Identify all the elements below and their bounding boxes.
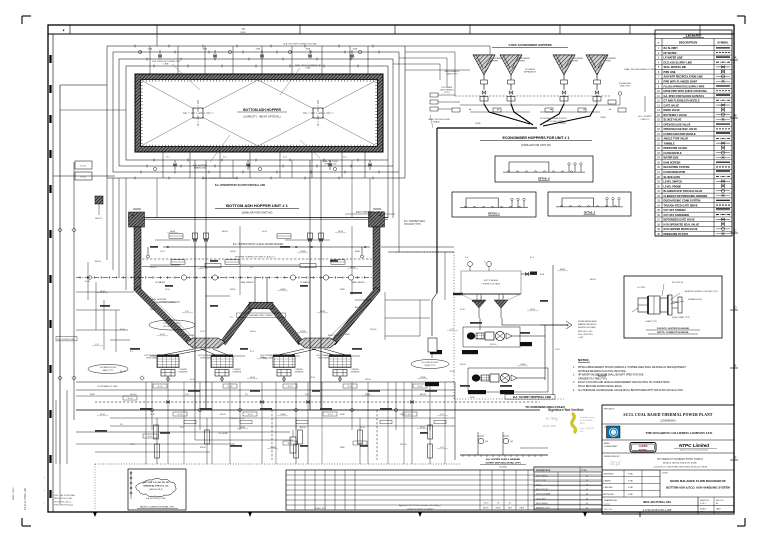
svg-text:THIMBLE: THIMBLE (664, 142, 675, 145)
svg-text:BOTTOM ASH HOPPER: BOTTOM ASH HOPPER (243, 108, 281, 112)
svg-text:NTPC SITE: NTPC SITE (536, 480, 547, 482)
svg-text:BAHP (TYP): BAHP (TYP) (103, 369, 114, 372)
svg-text:DISTRIBUTION: DISTRIBUTION (536, 470, 551, 472)
left side risers (53, 85, 195, 464)
coupling detail box (624, 276, 722, 338)
svg-text:(SEE NOTE-2): (SEE NOTE-2) (149, 489, 163, 491)
svg-text:50 A: 50 A (540, 273, 545, 276)
bottom left reference text (44, 477, 75, 507)
svg-text:SL-90: SL-90 (288, 386, 293, 388)
svg-text:SL-90: SL-90 (262, 231, 267, 233)
svg-text:OVERFLOW TANK: OVERFLOW TANK (482, 283, 501, 286)
svg-text:DECANTING SYSTEM: DECANTING SYSTEM (664, 166, 690, 169)
svg-text:DETAIL-1: DETAIL-1 (488, 212, 500, 216)
svg-text:B.A. TROUGH OVERFLOW: B.A. TROUGH OVERFLOW (152, 60, 180, 63)
svg-text:CONSULTANT:: CONSULTANT: (604, 445, 618, 448)
svg-text:THE SINGARENI COLLIERIES COMPA: THE SINGARENI COLLIERIES COMPANY LTD. (646, 431, 713, 435)
svg-text:OPEN DELUGE NOZ. VALVE: OPEN DELUGE NOZ. VALVE (664, 128, 698, 131)
svg-text:SL-90: SL-90 (360, 427, 365, 429)
svg-text:FL-3: FL-3 (305, 394, 309, 396)
svg-text:(U#1&2): (U#1&2) (499, 467, 507, 469)
svg-text:O.F. SUMP: O.F. SUMP (218, 433, 229, 435)
svg-text:BA-101: BA-101 (120, 370, 126, 373)
svg-text:(BOTH FOR U#1&2): (BOTH FOR U#1&2) (163, 326, 181, 328)
svg-text:BA-101: BA-101 (95, 260, 101, 263)
svg-text:SL-90: SL-90 (418, 386, 423, 388)
sump details (195, 410, 380, 453)
svg-text:DN-100: DN-100 (490, 344, 496, 346)
svg-text:BOTTOM ASH HOPPER UNIT # 1: BOTTOM ASH HOPPER UNIT # 1 (226, 203, 289, 208)
detail box 2 (548, 192, 631, 216)
svg-text:Development Consultants Privat: Development Consultants Private Limited (658, 458, 704, 461)
svg-text:Signature Not Verified: Signature Not Verified (548, 408, 583, 412)
svg-text:FL-3: FL-3 (305, 267, 309, 269)
svg-text:SUPPLIER DRAWING IN ACTUAL PRA: SUPPLIER DRAWING IN ACTUAL PRACTICE. (578, 370, 627, 373)
svg-text:DATE: DATE (520, 507, 526, 510)
svg-text:▲: ▲ (609, 108, 611, 111)
svg-text:WATER BOX: WATER BOX (664, 157, 679, 160)
svg-text:CHKD: CHKD (495, 508, 501, 510)
svg-text:BHEL/: BHEL/ (604, 443, 610, 445)
svg-text:PIPE LINE: PIPE LINE (664, 71, 676, 74)
svg-text:B.A. INTERMITTENT SLURRY DISPO: B.A. INTERMITTENT SLURRY DISPOSAL LINE (215, 184, 266, 187)
svg-text:150NB: 150NB (600, 117, 606, 119)
svg-text:ECO ASH SLURRY LINE: ECO ASH SLURRY LINE (664, 61, 693, 64)
svg-text:L-002: L-002 (578, 337, 584, 339)
svg-text:TD: TD (241, 28, 244, 31)
svg-text:SL-90: SL-90 (328, 414, 333, 416)
svg-text:NTPC NO:: NTPC NO: (604, 509, 613, 511)
svg-text:B.A. HOPPER SPRAY & SEAL WATER: B.A. HOPPER SPRAY & SEAL WATER HEADER (233, 243, 284, 246)
svg-text:HOPPER: HOPPER (603, 61, 612, 63)
svg-text:LP WATER LINE: LP WATER LINE (664, 57, 683, 60)
svg-text:HYDRO EJECTOR NOZZLE: HYDRO EJECTOR NOZZLE (664, 133, 697, 136)
svg-text:NTPC ENGG.: NTPC ENGG. (536, 475, 548, 477)
svg-text:SCCL: SCCL (536, 485, 541, 487)
svg-text:4 NOS. ECONOMISER HOPPERS: 4 NOS. ECONOMISER HOPPERS (508, 43, 552, 47)
svg-text:S.PAL: S.PAL (628, 486, 633, 489)
svg-text:▲: ▲ (583, 108, 585, 111)
svg-text:FL-3: FL-3 (180, 427, 184, 429)
svg-text:IDENTICAL FOR G.G. G3.: IDENTICAL FOR G.G. G3. (144, 485, 169, 488)
svg-text:APPROVED: APPROVED (604, 493, 615, 496)
svg-text:MASTER COPY: MASTER COPY (536, 507, 551, 510)
svg-text:DISCHARGING CONN SYSTEM: DISCHARGING CONN SYSTEM (664, 200, 701, 203)
svg-text:SEAL WATER: SEAL WATER (240, 281, 254, 284)
elevation interior piping (76, 160, 372, 410)
svg-text:CALCUTTA-27, NEW YORK, SINGAPO: CALCUTTA-27, NEW YORK, SINGAPORE, KOLKAT… (653, 465, 707, 468)
svg-text:LATION SYSTEM: LATION SYSTEM (578, 326, 596, 329)
svg-text:WATER RECIRCU-: WATER RECIRCU- (578, 323, 597, 326)
svg-text:DCPL SITE: DCPL SITE (536, 498, 546, 500)
svg-text:FLOW NOZZLE: FLOW NOZZLE (664, 152, 682, 155)
svg-text:G.I. PIPE: G.I. PIPE (637, 287, 646, 289)
svg-text:BA-101: BA-101 (222, 230, 228, 233)
title block (602, 405, 734, 514)
svg-text:LINE (TYP): LINE (TYP) (620, 86, 631, 88)
svg-text:SEAL TROUGH MAKE UP LINE: SEAL TROUGH MAKE UP LINE (624, 68, 656, 71)
svg-text:TROUGH (TYP): TROUGH (TYP) (404, 224, 421, 226)
svg-text:SEAL WATER LINE: SEAL WATER LINE (664, 66, 687, 69)
svg-text:DAM SCREEN: DAM SCREEN (664, 161, 681, 164)
svg-text:COPIES: COPIES (580, 470, 588, 472)
plan hopper diagonals and apex squares (141, 80, 377, 146)
svg-text:ECONOMISER ASH SLURRY: ECONOMISER ASH SLURRY (540, 117, 568, 120)
svg-text:HYDROBINS/ ASH: HYDROBINS/ ASH (578, 320, 597, 323)
svg-text:SEAL TROUGH: SEAL TROUGH (328, 334, 343, 337)
svg-text:02: 02 (586, 494, 588, 496)
svg-text:HYD. CAL FLOW DIAG: HYD. CAL FLOW DIAG (54, 494, 75, 497)
plan caption (215, 203, 395, 215)
svg-text:S.PAL: S.PAL (628, 479, 633, 482)
svg-text:(2X600MW): (2X600MW) (660, 419, 675, 423)
svg-text:GRINDER: GRINDER (295, 372, 304, 374)
svg-text:dcpl: dcpl (609, 461, 621, 467)
svg-text:HOSE PIPE WITH QUICK COUPLING: HOSE PIPE WITH QUICK COUPLING (664, 90, 707, 93)
svg-text:LP-50: LP-50 (310, 377, 315, 379)
svg-text:(SIMILAR FOR UNIT #2): (SIMILAR FOR UNIT #2) (242, 211, 273, 215)
svg-text:EQUALISING: EQUALISING (619, 82, 632, 85)
svg-text:LEGEND: LEGEND (686, 33, 702, 37)
svg-text:HOPPER: HOPPER (490, 61, 499, 63)
svg-text:150NB: 150NB (444, 119, 450, 121)
svg-text:SYMBOL: SYMBOL (717, 41, 729, 45)
svg-text:BA SLURRY: BA SLURRY (664, 47, 679, 50)
svg-text:JSY-P739-L-002, &: JSY-P739-L-002, & (54, 501, 72, 503)
svg-text:APPTS. CONNECTION DETAIL: APPTS. CONNECTION DETAIL (657, 331, 689, 334)
svg-text:SL-90: SL-90 (460, 309, 465, 311)
piping texture details (76, 93, 626, 449)
svg-text:SL-90: SL-90 (190, 379, 195, 381)
svg-text:TROUGH FEED GATE DRIVE: TROUGH FEED GATE DRIVE (664, 204, 698, 207)
economiser hoppers (437, 43, 652, 147)
svg-text:SCALE: NTS: SCALE: NTS (314, 507, 326, 510)
svg-text:FLOW INDICATOR: FLOW INDICATOR (664, 171, 686, 174)
svg-text:DETAIL-2: DETAIL-2 (584, 211, 596, 215)
svg-text:HYD OPERATED SEAL VALVE: HYD OPERATED SEAL VALVE (664, 223, 700, 226)
svg-text:B: B (734, 114, 736, 118)
svg-text:DN-100: DN-100 (150, 267, 156, 269)
svg-text:SCALE: SCALE (700, 508, 707, 511)
elevation wall labels (132, 214, 426, 337)
svg-text:HP WATER VALVE SHOWN: HP WATER VALVE SHOWN SHALL BE KEPT OPEN … (578, 374, 644, 377)
svg-text:SLUICE VALVE: SLUICE VALVE (664, 119, 682, 122)
notes block (573, 358, 686, 392)
svg-text:DCPL 2021: DCPL 2021 (543, 424, 557, 428)
svg-text:Digitally signed: Digitally signed (580, 416, 595, 419)
svg-text:S.PAL: S.PAL (628, 493, 633, 496)
svg-text:SL-1: SL-1 (166, 157, 170, 159)
svg-text:DN-100: DN-100 (370, 329, 376, 331)
svg-text:02: 02 (586, 475, 588, 477)
svg-text:2-4701-0128-PVM-L-005: 2-4701-0128-PVM-L-005 (643, 508, 672, 512)
svg-text:B.A. SLURRY LINE: B.A. SLURRY LINE (57, 338, 75, 341)
svg-text:Date: 2021.08: Date: 2021.08 (580, 427, 595, 430)
svg-text:GA. SPEC FOR SLUICE GATE/VLV: GA. SPEC FOR SLUICE GATE/VLV (664, 95, 705, 98)
svg-text:02: 02 (586, 503, 588, 505)
svg-text:SW-40: SW-40 (220, 414, 225, 416)
svg-text:LINE U#2: LINE U#2 (641, 119, 651, 121)
svg-text:SEAL WATER: SEAL WATER (351, 281, 365, 284)
svg-text:01: 01 (509, 503, 511, 505)
typ-for reference box (128, 469, 186, 510)
feed gates and clinker grinders (145, 349, 360, 382)
svg-text:SL-90: SL-90 (85, 281, 90, 283)
svg-text:DRAWN: DRAWN (604, 479, 612, 482)
svg-text:0901-JSY-P739-L-001: 0901-JSY-P739-L-001 (643, 500, 671, 504)
svg-text:NTPC Limited: NTPC Limited (679, 443, 709, 448)
svg-text:Applied at HP HVCS concept is: Applied at HP HVCS concept is at setting… (399, 504, 442, 507)
svg-text:S.PAL: S.PAL (628, 473, 633, 476)
svg-text:02: 02 (586, 480, 588, 482)
svg-text:VALVE 25 CONNECTION DETAIL (TY: VALVE 25 CONNECTION DETAIL (TYP) (140, 506, 174, 509)
svg-text:DRAIN: DRAIN (433, 121, 440, 124)
plan leader labels (152, 43, 656, 188)
svg-text:ECO. SLURRY: ECO. SLURRY (638, 116, 652, 118)
svg-text:SL-90: SL-90 (450, 371, 455, 373)
svg-text:ROY: ROY (580, 423, 585, 425)
detail box 1 (452, 192, 536, 217)
svg-text:PRESSURE GAUGE: PRESSURE GAUGE (664, 147, 688, 150)
svg-text:FEED GATE: FEED GATE (318, 357, 329, 360)
svg-text:HOPPER OVERFLOW LINE TO B.A.O.: HOPPER OVERFLOW LINE TO B.A.O.T. (235, 255, 276, 258)
svg-text:BUTTERFLY VALVE: BUTTERFLY VALVE (664, 114, 688, 117)
svg-text:6.8.21: 6.8.21 (484, 503, 489, 505)
svg-text:02: 02 (586, 498, 588, 500)
svg-text:APPARATUS: APPARATUS (524, 71, 536, 74)
svg-text:LEVEL PROBE: LEVEL PROBE (664, 185, 682, 188)
svg-text:B.A. HOPPER: B.A. HOPPER (152, 298, 166, 301)
svg-text:TD-42: TD-42 (80, 177, 86, 179)
svg-text:02: 02 (586, 489, 588, 491)
svg-text:ANGLE TYPE VALVE: ANGLE TYPE VALVE (664, 138, 689, 141)
svg-text:BOTTOM ASH & ECO. ASH HANDLING: BOTTOM ASH & ECO. ASH HANDLING SYSTEM (666, 486, 730, 490)
svg-text:HOPPER: HOPPER (517, 61, 526, 63)
svg-text:DATE: DATE (716, 508, 721, 511)
digital signature stamp (543, 408, 595, 433)
svg-text:150NB: 150NB (560, 123, 566, 125)
svg-text:GRINDER: GRINDER (233, 372, 242, 374)
svg-text:SCCL COAL BASED THERMAL POWER: SCCL COAL BASED THERMAL POWER PLANT (623, 413, 713, 417)
svg-text:ECO. GATE: ECO. GATE (442, 86, 453, 89)
svg-text:ASH WTR RECIRCULATION LINE: ASH WTR RECIRCULATION LINE (664, 76, 704, 79)
svg-text:▲: ▲ (132, 214, 135, 217)
svg-text:P&ID: P&ID (240, 32, 246, 34)
svg-text:SEAL TROUGH: SEAL TROUGH (428, 118, 444, 121)
svg-text:CLINKER FOR PRESSURE GRINDER: CLINKER FOR PRESSURE GRINDER (664, 195, 708, 198)
svg-text:DCPL KOLKATA: DCPL KOLKATA (536, 493, 551, 496)
svg-text:SHALL BE DONE DURING DETAIL EN: SHALL BE DONE DURING DETAIL ENGG. (578, 385, 623, 388)
svg-text:ADAPTER SLEEVE COUPLING (TYP): ADAPTER SLEEVE COUPLING (TYP) (685, 290, 718, 293)
detail box A (495, 156, 593, 182)
svg-text:ECO HOPPER DRAIN VALVE: ECO HOPPER DRAIN VALVE (664, 228, 698, 231)
svg-text:SW-40: SW-40 (200, 447, 205, 449)
svg-text:LPCW MAKE UP LINE: LPCW MAKE UP LINE (97, 385, 118, 388)
plan title text (237, 108, 287, 119)
svg-text:FOR ECO. HOPPER FLUSHING: FOR ECO. HOPPER FLUSHING (657, 328, 690, 330)
svg-text:F: F (735, 456, 737, 460)
svg-text:NOTES:: NOTES: (578, 358, 589, 362)
svg-text:B.A. HOPPER SUMP & GRINDER: B.A. HOPPER SUMP & GRINDER (486, 458, 520, 461)
svg-text:FEED GATE: FEED GATE (200, 357, 211, 360)
svg-text:FL-3: FL-3 (280, 317, 284, 319)
svg-text:DESCRIPTION: DESCRIPTION (679, 41, 697, 45)
svg-text:LINE: LINE (306, 68, 311, 70)
svg-text:SHEET NO.: SHEET NO. (700, 500, 710, 502)
svg-text:SL-90: SL-90 (128, 398, 133, 400)
svg-text:TD-41: TD-41 (80, 166, 86, 168)
svg-text:SLURRY DISPOSAL DETAIL (TYP): SLURRY DISPOSAL DETAIL (TYP) (485, 462, 521, 465)
svg-text:SL-90: SL-90 (408, 414, 413, 416)
svg-text:PIPING ARRANGEMENT SHOWN INSID: PIPING ARRANGEMENT SHOWN INSIDE B.A. HOP… (578, 366, 686, 369)
svg-text:1 OF 1: 1 OF 1 (700, 503, 706, 505)
svg-text:CHECKED: CHECKED (604, 487, 614, 489)
bottom ash hopper plan outline (135, 74, 383, 152)
svg-text:HP WATER: HP WATER (664, 52, 677, 55)
svg-text:EXACT LOCATION AND LEVELS/ ARR: EXACT LOCATION AND LEVELS/ ARRANGEMENT A… (578, 381, 670, 384)
svg-text:PROJECT:: PROJECT: (604, 409, 615, 411)
svg-text:GRINDER: GRINDER (351, 372, 360, 374)
svg-text:M.S. NIPPLE: M.S. NIPPLE (672, 282, 684, 284)
svg-text:DRAIN LINE: DRAIN LINE (194, 167, 207, 170)
svg-text:OPEN DELUGE VALVE: OPEN DELUGE VALVE (664, 123, 691, 126)
svg-text:SW-40: SW-40 (230, 251, 235, 253)
svg-text:02: 02 (586, 485, 588, 487)
svg-text:wrong or system a symbol: wrong or system a symbol (407, 507, 433, 510)
sump detail sketch (460, 432, 548, 469)
svg-text:02: 02 (586, 508, 588, 510)
svg-text:▲: ▲ (469, 108, 471, 111)
svg-text:▲: ▲ (550, 108, 552, 111)
svg-text:PRINT 08/21: PRINT 08/21 (13, 487, 15, 500)
svg-text:LP-50: LP-50 (160, 251, 165, 253)
svg-text:DN-100: DN-100 (400, 444, 406, 446)
svg-text:DN-100: DN-100 (400, 414, 406, 416)
svg-text:OVERFLOW: OVERFLOW (324, 164, 337, 166)
svg-text:SL-90: SL-90 (348, 386, 353, 388)
svg-text:▲: ▲ (379, 214, 382, 217)
svg-text:BHEL/TRICHY: BHEL/TRICHY (536, 489, 549, 491)
svg-text:LP-50: LP-50 (130, 444, 135, 446)
svg-text:LP-50: LP-50 (200, 331, 205, 333)
top connection lines (393, 46, 490, 96)
svg-text:REFRACTORY LINING: REFRACTORY LINING (250, 314, 273, 317)
svg-text:LP-50: LP-50 (150, 414, 155, 416)
svg-text:SW-40: SW-40 (250, 331, 255, 333)
svg-text:TYP. FOR G.G. GA. G5. G6.: TYP. FOR G.G. GA. G5. G6. (143, 481, 170, 484)
overflow tank and slurry pumps (388, 128, 597, 409)
svg-text:K Roy: K Roy (546, 416, 559, 421)
elevation hopper top and side walls (128, 209, 388, 290)
svg-text:(SIMILAR FOR UNIT #2): (SIMILAR FOR UNIT #2) (521, 143, 551, 147)
svg-text:BLANKED OFF/ TROUGH VALVE: BLANKED OFF/ TROUGH VALVE (664, 190, 703, 193)
svg-text:B.A. TROUGH OVERFLOW LINE: B.A. TROUGH OVERFLOW LINE (284, 43, 317, 46)
svg-text:SL-90: SL-90 (178, 414, 183, 416)
svg-text:LP-50: LP-50 (165, 289, 170, 291)
svg-text:RUBBER HOSE: RUBBER HOSE (688, 299, 703, 301)
svg-text:CLAMP (TYP): CLAMP (TYP) (645, 320, 657, 323)
svg-text:TRENCH (TYP): TRENCH (TYP) (230, 418, 244, 420)
svg-text:GATE (TYP): GATE (TYP) (446, 73, 457, 76)
svg-text:00: 00 (716, 503, 718, 505)
svg-text:LEVEL SWITCH: LEVEL SWITCH (664, 181, 683, 184)
svg-text:B.A. TROUGH OVERFLOW LINE: B.A. TROUGH OVERFLOW LINE (204, 177, 237, 180)
svg-text:B.A. HOPPER SEAL: B.A. HOPPER SEAL (404, 220, 426, 223)
svg-text:P739-XER-P741-004: P739-XER-P741-004 (54, 505, 74, 507)
svg-text:FL-3: FL-3 (530, 257, 534, 259)
svg-text:BA-101: BA-101 (300, 426, 306, 429)
svg-text:B.A. HOPPER (U#1&2): B.A. HOPPER (U#1&2) (146, 497, 166, 500)
svg-text:LP-50: LP-50 (555, 349, 560, 351)
margin vertical text (13, 487, 27, 510)
svg-text:ALL PRESSURE GAUGES/LEVEL GAUG: ALL PRESSURE GAUGES/LEVEL GAUGE SHALL BE… (578, 389, 684, 392)
svg-text:△: △ (484, 260, 486, 263)
svg-text:(A Government of India Enterpr: (A Government of India Enterprise) (680, 449, 708, 452)
legend table (655, 30, 732, 236)
svg-text:SL-4: SL-4 (343, 157, 347, 159)
svg-text:PRESSURE TD STAT: PRESSURE TD STAT (664, 233, 689, 236)
svg-text:▼: ▼ (62, 29, 65, 33)
svg-text:BHOPAL HOUSE, KOLKATA PARK,: BHOPAL HOUSE, KOLKATA PARK, (663, 462, 698, 465)
svg-text:REF DRG NO. 0901-: REF DRG NO. 0901- (54, 498, 73, 500)
svg-text:DRAWING NO:: DRAWING NO: (604, 499, 618, 502)
svg-text:CUT OFF SCREENER: CUT OFF SCREENER (664, 214, 690, 217)
svg-text:GATE VALVE: GATE VALVE (664, 104, 680, 107)
svg-text:MASS BALANCE FLOW DIAGRAM OF: MASS BALANCE FLOW DIAGRAM OF (670, 479, 726, 483)
svg-text:MOTORISED GATE VALVE: MOTORISED GATE VALVE (664, 219, 696, 222)
svg-text:(CAPACITY : 480 M³ UPTOTAL): (CAPACITY : 480 M³ UPTOTAL) (243, 115, 280, 119)
svg-text:SL-90: SL-90 (358, 443, 363, 445)
svg-text:HP WATER FROM: HP WATER FROM (100, 366, 116, 369)
svg-text:REF. DRG. NO.:: REF. DRG. NO.: (578, 331, 594, 333)
svg-text:FLUSH APPARATUS SUPPLY PIPE: FLUSH APPARATUS SUPPLY PIPE (664, 85, 705, 88)
svg-text:NTPC: NTPC (639, 448, 648, 452)
svg-text:LP WATER: LP WATER (300, 281, 311, 284)
svg-text:ECONOMISER HOPPERS FOR UNIT #: ECONOMISER HOPPERS FOR UNIT # 1 (502, 136, 569, 140)
svg-text:SL-90: SL-90 (248, 414, 253, 416)
svg-text:BA-101: BA-101 (420, 393, 426, 396)
plan view piping loops (107, 34, 405, 290)
svg-text:DEVELOPED BY:: DEVELOPED BY: (604, 456, 620, 458)
svg-text:SL-3: SL-3 (283, 157, 287, 159)
svg-text:FIELD ENGG.: FIELD ENGG. (536, 503, 548, 505)
svg-text:SUMP (TYP): SUMP (TYP) (425, 365, 436, 367)
svg-text:SW-40: SW-40 (230, 289, 235, 291)
svg-text:0901-JSY-P739-: 0901-JSY-P739- (578, 334, 593, 336)
bottom revision table (286, 467, 602, 510)
svg-text:SL-2: SL-2 (223, 157, 227, 159)
svg-text:CUT OFF SCREEN: CUT OFF SCREEN (664, 209, 686, 212)
svg-text:E: E (734, 364, 736, 368)
svg-text:SEAL TROUGH: SEAL TROUGH (322, 160, 338, 163)
svg-text:150NB: 150NB (475, 123, 481, 125)
svg-text:SEAL TROUGH MAKE UP: SEAL TROUGH MAKE UP (295, 64, 322, 67)
svg-text:FL-3: FL-3 (250, 351, 254, 353)
svg-text:HOSE CLAMP (TYP): HOSE CLAMP (TYP) (672, 316, 690, 319)
svg-text:DETAIL-A: DETAIL-A (538, 177, 550, 181)
svg-text:SW-40: SW-40 (365, 379, 370, 381)
svg-text:GRINDER AT A TIME (TYP).: GRINDER AT A TIME (TYP). (578, 377, 607, 380)
svg-text:DN-100: DN-100 (130, 394, 136, 396)
svg-text:DN-100: DN-100 (150, 309, 156, 311)
svg-text:LP WATER: LP WATER (155, 281, 166, 284)
lower piping network (56, 247, 540, 510)
svg-text:APVD: APVD (483, 507, 489, 510)
svg-text:TITLE:: TITLE: (662, 473, 668, 475)
svg-text:GRINDER: GRINDER (179, 372, 188, 374)
svg-text:LINE: LINE (164, 64, 169, 66)
svg-text:▲: ▲ (497, 108, 499, 111)
